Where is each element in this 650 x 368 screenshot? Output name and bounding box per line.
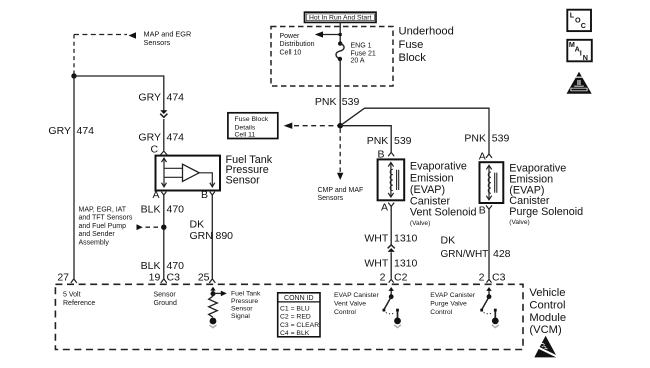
svg-text:Pressure: Pressure (231, 298, 258, 305)
ground dot (210, 318, 217, 325)
svg-text:474: 474 (167, 132, 185, 144)
wire dashed to Fuse Block Details (294, 125, 338, 127)
svg-text:I: I (580, 49, 582, 58)
svg-text:539: 539 (492, 133, 510, 145)
svg-text:Control: Control (529, 300, 565, 312)
value label BLK 470 (lower) (141, 260, 185, 272)
svg-text:and Fuel Pump: and Fuel Pump (79, 223, 127, 230)
arrowhead to BLK node (137, 224, 143, 230)
label Fuel Tank Pressure Sensor Signal (231, 291, 261, 321)
svg-text:C3 = CLEAR: C3 = CLEAR (280, 322, 319, 329)
svg-text:BLK: BLK (141, 204, 161, 216)
svg-text:Block: Block (399, 52, 427, 64)
transistor driver Q1 vent valve control (390, 290, 392, 296)
svg-text:Signal: Signal (231, 313, 250, 320)
solenoid internal wire with arrows (390, 163, 392, 197)
symbol box LOC (567, 10, 591, 31)
svg-text:Control: Control (334, 309, 356, 316)
solenoid L1 EVAP canister vent box (378, 159, 405, 200)
svg-text:C: C (151, 144, 159, 156)
svg-text:CMP and MAF: CMP and MAF (318, 187, 364, 194)
svg-text:A: A (381, 202, 388, 214)
solenoid L2 EVAP canister purge box (480, 162, 504, 203)
svg-text:Sensor: Sensor (154, 292, 177, 299)
svg-text:DK: DK (441, 235, 456, 247)
sensor output wire (199, 173, 212, 182)
label Sensor Ground (154, 292, 177, 307)
svg-text:Module: Module (529, 312, 566, 324)
svg-text:Sensors: Sensors (318, 195, 344, 202)
svg-text:EVAP Canister: EVAP Canister (334, 292, 379, 299)
wire PNK diagonal and to purge solenoid A (340, 108, 489, 154)
pin B caret (388, 152, 394, 156)
svg-text:470: 470 (167, 260, 185, 272)
svg-text:Control: Control (430, 309, 452, 316)
svg-text:Fuse 21: Fuse 21 (351, 50, 376, 57)
svg-text:(Valve): (Valve) (410, 220, 430, 227)
svg-text:(Valve): (Valve) (509, 219, 529, 226)
svg-text:C3: C3 (167, 272, 181, 284)
value label DK GRN 890 (190, 219, 234, 242)
label box Hot In Run And Start (305, 12, 377, 22)
wire PNK 539 main vertical (339, 59, 341, 126)
svg-text:and Sender: and Sender (79, 231, 116, 238)
value label PNK 539 (purge) (464, 133, 509, 145)
svg-text:(VCM): (VCM) (529, 324, 562, 336)
svg-text:Cell 11: Cell 11 (235, 132, 256, 139)
svg-text:C3: C3 (492, 272, 506, 284)
pin 2 C2 caret (389, 279, 394, 282)
svg-text:BLK: BLK (141, 260, 161, 272)
svg-text:and TFT Sensors: and TFT Sensors (79, 215, 133, 222)
node PNK junction (337, 123, 343, 129)
table CONN ID (278, 293, 320, 337)
inline connector chevrons up (388, 245, 395, 249)
svg-text:428: 428 (493, 248, 511, 260)
label Evaporative Emission EVAP Canister Vent Solenoid (410, 160, 477, 218)
pin 25 caret (209, 279, 215, 283)
svg-text:Power: Power (280, 33, 301, 40)
pin B caret (210, 192, 215, 195)
pin 19 C3 caret (161, 279, 167, 283)
node dot at 25 (211, 291, 216, 296)
wire dashed down to CMP and MAF sensors (339, 129, 341, 173)
wire from hot box to fuse (339, 22, 341, 42)
svg-text:474: 474 (77, 125, 95, 137)
svg-text:Distribution: Distribution (280, 41, 315, 48)
svg-text:2: 2 (380, 272, 386, 284)
label CMP and MAF Sensors (318, 187, 364, 202)
svg-text:539: 539 (342, 96, 360, 108)
wire top horizontal to sensor branch (74, 76, 164, 111)
svg-text:Vent Solenoid: Vent Solenoid (410, 206, 477, 218)
svg-text:1310: 1310 (394, 258, 418, 270)
svg-text:C: C (581, 21, 586, 30)
pin 27 terminal caret (71, 279, 77, 283)
svg-text:N: N (583, 53, 588, 62)
svg-text:Fuel Tank: Fuel Tank (231, 291, 261, 298)
svg-text:Evaporative: Evaporative (410, 160, 467, 172)
solenoid coil (488, 172, 491, 193)
label Vehicle Control Module (VCM) (529, 287, 566, 336)
svg-text:GRN/WHT: GRN/WHT (441, 249, 489, 260)
solenoid core lines (495, 173, 497, 193)
svg-text:GRY: GRY (138, 132, 161, 144)
svg-text:539: 539 (394, 135, 412, 147)
label Power Distribution Cell 10 (280, 33, 315, 57)
pin C caret (160, 151, 167, 155)
label EVAP Canister Vent Valve Control (334, 292, 379, 316)
svg-text:C4 = BLK: C4 = BLK (280, 330, 310, 337)
value label PNK 539 (vent) (367, 135, 412, 147)
svg-text:Details: Details (235, 124, 256, 131)
transistor driver Q2 purge valve control (488, 290, 490, 296)
label Evaporative Emission EVAP Canister Purge Solenoid (509, 162, 583, 218)
node junction left (71, 73, 76, 78)
svg-text:EVAP Canister: EVAP Canister (430, 292, 475, 299)
value label WHT 1310 (lower) (364, 258, 417, 270)
label box Fuse Block Details Cell 11 (228, 113, 278, 139)
svg-text:474: 474 (167, 92, 185, 104)
svg-text:Reference: Reference (63, 300, 95, 307)
wire DK GRN 890 from B (211, 195, 213, 279)
svg-text:Assembly: Assembly (79, 240, 110, 247)
svg-text:Emission: Emission (410, 172, 454, 184)
svg-text:Vent Valve: Vent Valve (334, 301, 366, 308)
value label DK GRN/WHT 428 (441, 235, 511, 260)
svg-text:Cell 10: Cell 10 (280, 49, 302, 56)
svg-text:CONN ID: CONN ID (284, 295, 314, 302)
fuse value label ENG 1 Fuse 21 20 A (351, 43, 376, 65)
svg-text:Vehicle: Vehicle (529, 287, 565, 299)
node junction on BLK wire (161, 225, 166, 230)
value label WHT 1310 (upper) (364, 232, 417, 244)
svg-text:B: B (201, 189, 208, 201)
ESD warning triangle (534, 336, 558, 358)
arrow right to signal label (213, 292, 221, 294)
svg-text:20 A: 20 A (351, 58, 365, 65)
svg-text:2: 2 (479, 272, 485, 284)
svg-text:A: A (479, 151, 486, 163)
svg-text:Fuse: Fuse (399, 39, 424, 51)
svg-text:C1 = BLU: C1 = BLU (280, 305, 310, 312)
svg-text:1310: 1310 (394, 232, 418, 244)
svg-text:WHT: WHT (364, 258, 388, 270)
svg-text:27: 27 (57, 272, 69, 284)
label Underhood Fuse Block (399, 26, 454, 64)
svg-text:GRY: GRY (138, 92, 161, 104)
label EVAP Canister Purge Valve Control (430, 292, 475, 316)
svg-text:B: B (479, 204, 486, 216)
svg-text:MAP, EGR, IAT: MAP, EGR, IAT (79, 206, 127, 213)
pin label 2 C2 (380, 272, 408, 284)
svg-text:C2: C2 (394, 272, 408, 284)
svg-text:Underhood: Underhood (399, 26, 454, 38)
label MAP and EGR Sensors (144, 30, 192, 48)
wire dashed from sensors annotation (146, 226, 161, 228)
svg-text:Purge Valve: Purge Valve (430, 301, 467, 308)
svg-text:PNK: PNK (367, 135, 389, 147)
value label GRY 474 (upper) (138, 92, 184, 104)
module VCM dashed box (55, 284, 523, 349)
arrowhead to MAP and EGR (129, 32, 137, 38)
pin label 19 C3 (149, 272, 180, 284)
Underhood Fuse Block dashed box (271, 27, 393, 87)
solenoid internal wire with arrows (488, 165, 490, 199)
svg-text:Hot In Run And Start: Hot In Run And Start (309, 15, 371, 22)
symbol box MAIN (567, 40, 592, 62)
node 25 input arrow up (212, 290, 214, 294)
wire GRY 474 left vertical (73, 76, 75, 279)
inline connector chevrons (160, 110, 167, 114)
svg-text:Fuse Block: Fuse Block (235, 116, 269, 123)
svg-text:Sensor: Sensor (231, 306, 253, 313)
value label BLK 470 (upper) (141, 204, 185, 216)
solenoid coil (390, 169, 393, 190)
wire dashed to MAP and EGR sensors (74, 35, 127, 75)
svg-text:25: 25 (198, 272, 210, 284)
ground chevron (210, 325, 217, 328)
label 5 Volt Reference (63, 292, 95, 307)
solenoid core lines (397, 170, 399, 190)
svg-text:WHT: WHT (364, 232, 388, 244)
pin A caret (486, 154, 492, 158)
svg-text:19: 19 (149, 272, 161, 284)
op-amp triangle inside sensor (183, 164, 200, 181)
pin 2 C3 caret (487, 279, 492, 282)
svg-text:5 Volt: 5 Volt (63, 292, 81, 299)
svg-text:890: 890 (216, 230, 234, 242)
svg-text:Sensors: Sensors (144, 38, 171, 47)
svg-text:C2 = RED: C2 = RED (280, 314, 311, 321)
wire BLK 470 from A (163, 195, 165, 279)
value label GRY 474 (lower) (138, 132, 184, 144)
svg-text:(EVAP): (EVAP) (410, 184, 445, 196)
arrowhead to Fuse Block Details (284, 123, 293, 129)
sensor U1 Fuel Tank Pressure Sensor box (156, 156, 221, 191)
svg-text:GRN: GRN (190, 230, 213, 242)
value label GRY 474 (left) (48, 125, 94, 137)
svg-text:PNK: PNK (315, 96, 337, 108)
wire to power distribution with arrowhead (322, 34, 340, 36)
svg-text:Purge Solenoid: Purge Solenoid (509, 206, 583, 218)
sensor internal wire with arrows (164, 161, 183, 184)
wire WHT 1310 (390, 206, 392, 278)
annotation MAP EGR IAT TFT sensors (79, 206, 133, 246)
wire DK GRN/WHT 428 (488, 209, 490, 278)
svg-text:A: A (153, 189, 160, 201)
pin A caret (161, 192, 166, 195)
pin B caret (486, 205, 492, 209)
pin label 2 C3 (479, 272, 506, 284)
fuse F1 ENG 1 Fuse 21 20A (338, 41, 342, 45)
svg-text:Evaporative: Evaporative (509, 162, 566, 174)
svg-text:PNK: PNK (464, 133, 486, 145)
pin A caret (388, 203, 394, 207)
svg-text:DK: DK (190, 219, 205, 231)
svg-text:Ground: Ground (154, 300, 177, 307)
svg-text:GRY: GRY (48, 125, 71, 137)
value label PNK 539 (top) (315, 96, 360, 108)
arrowhead down CMP MAF (337, 173, 343, 180)
label Fuel Tank Pressure Sensor (226, 154, 273, 186)
svg-text:Sensor: Sensor (226, 174, 261, 186)
svg-text:470: 470 (167, 204, 185, 216)
symbol triangle OBD II (567, 72, 592, 94)
resistor R1 sensor signal pulldown (209, 296, 218, 317)
wire PNK to vent solenoid B (340, 126, 391, 152)
wire GRY 474 to sensor C (163, 119, 165, 151)
svg-text:ENG 1: ENG 1 (351, 43, 372, 50)
